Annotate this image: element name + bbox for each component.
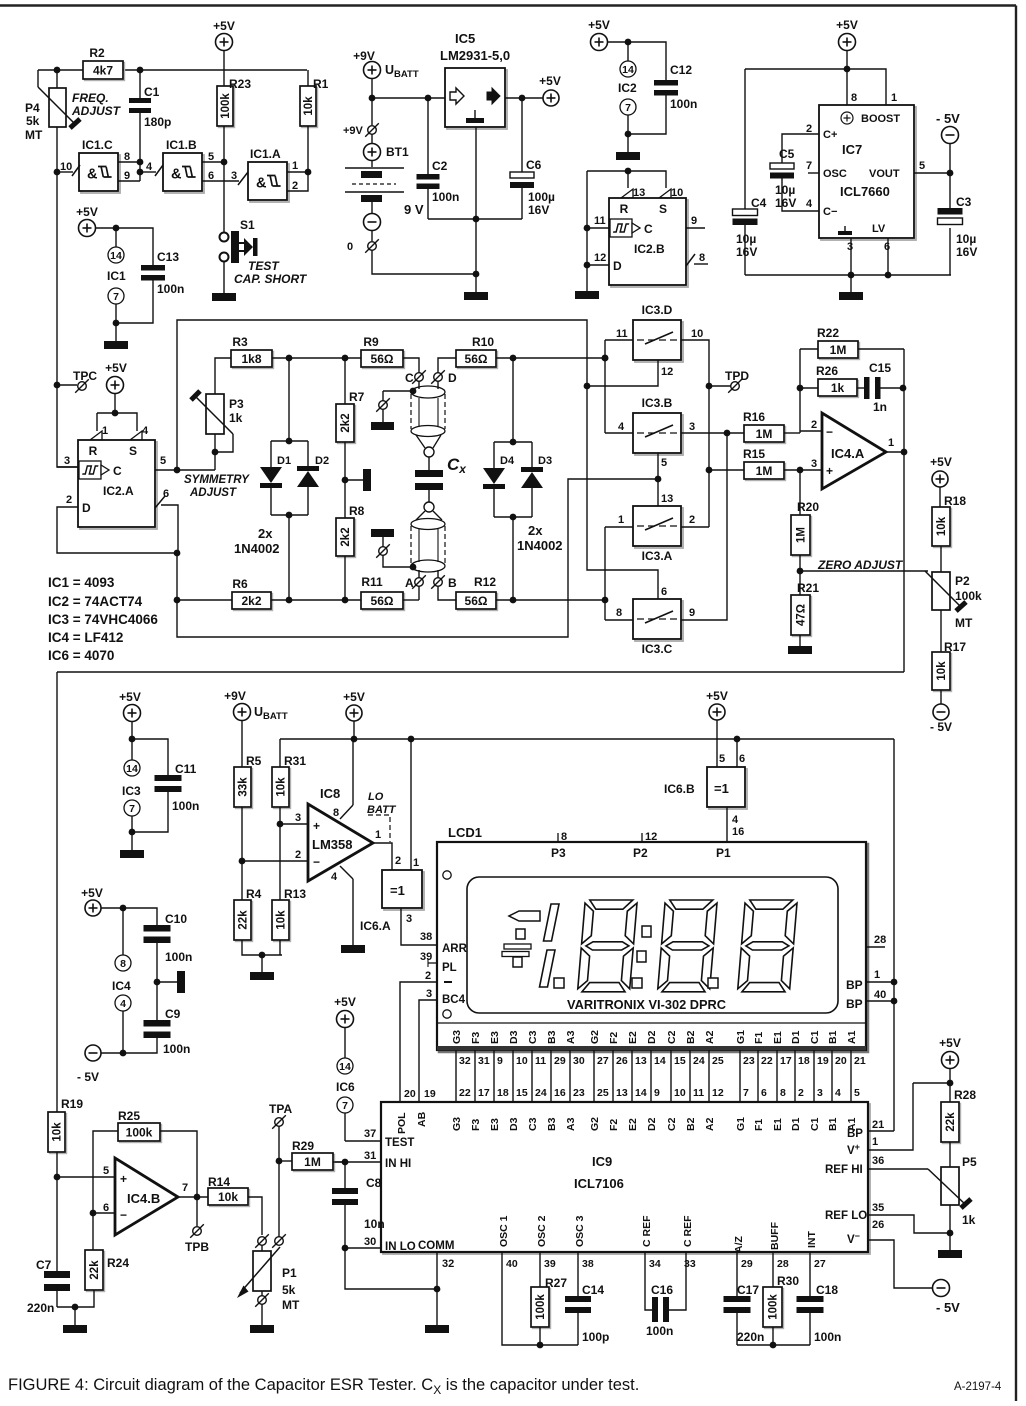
clip upper inner wires xyxy=(419,398,438,427)
wire R3 left xyxy=(215,358,231,394)
svg-text:3: 3 xyxy=(689,421,695,433)
svg-text:17: 17 xyxy=(780,1055,792,1067)
wire IC4 pwr link xyxy=(101,908,157,927)
svg-text:OSC 2: OSC 2 xyxy=(536,1215,548,1247)
svg-text:C2: C2 xyxy=(666,1030,678,1044)
IC7 lv gnd glyph xyxy=(838,226,852,235)
wire C14 bottom xyxy=(577,1313,579,1345)
svg-text:C8: C8 xyxy=(366,1176,382,1190)
wire C10 to C9 xyxy=(156,938,158,1020)
svg-text:C12: C12 xyxy=(670,63,692,77)
wire IC4.A out xyxy=(886,451,904,453)
svg-text:R8: R8 xyxy=(349,504,365,518)
terminal +9V xyxy=(365,123,379,137)
svg-text:R10: R10 xyxy=(472,335,494,349)
pin 8 slash IC8 xyxy=(340,805,353,819)
svg-text:E1: E1 xyxy=(772,1118,784,1131)
battery BT1 plus terminal xyxy=(364,144,381,161)
svg-text:IC3: IC3 xyxy=(122,784,141,798)
svg-text:G3: G3 xyxy=(451,1030,463,1044)
wire D4D3 bottom stem xyxy=(512,517,514,600)
svg-text:LM358: LM358 xyxy=(312,837,352,852)
diode D1 xyxy=(260,467,282,488)
node out IC4.B xyxy=(194,1194,201,1201)
digit 8 first xyxy=(578,900,637,992)
wire IC1 gnd stub xyxy=(115,323,117,341)
terminal TPC xyxy=(75,379,89,393)
resistor R27 xyxy=(531,1287,551,1329)
resistor R25 xyxy=(118,1123,162,1143)
svg-text:14: 14 xyxy=(339,1061,351,1073)
node gnd divider xyxy=(259,952,266,959)
colon upper xyxy=(642,926,651,937)
wire IC3.D pin12 xyxy=(587,360,658,386)
svg-text:&: & xyxy=(87,167,98,183)
wire C6 top xyxy=(521,98,523,172)
node IC1 power junction xyxy=(113,225,120,232)
svg-text:30: 30 xyxy=(364,1236,376,1248)
wire INT to C18 xyxy=(809,1252,811,1297)
node pin8/C1 xyxy=(137,159,144,166)
wire C9 bottom xyxy=(123,1033,157,1053)
svg-text:G2: G2 xyxy=(589,1030,601,1044)
svg-text:C+: C+ xyxy=(823,129,837,141)
svg-text:IC3 = 74VHC4066: IC3 = 74VHC4066 xyxy=(48,612,158,627)
clock glyph IC2.B xyxy=(610,219,640,237)
wire -5V to VOUT xyxy=(949,144,951,174)
wire R15 out xyxy=(784,469,822,471)
svg-text:R14: R14 xyxy=(208,1175,230,1189)
svg-text:IC1 = 4093: IC1 = 4093 xyxy=(48,575,115,590)
clip lower inner wires xyxy=(419,528,438,562)
wire V- pin xyxy=(868,1240,932,1288)
capacitor C1 xyxy=(129,98,151,113)
terminal 0 xyxy=(365,239,379,253)
wire R24 bottom xyxy=(57,1290,94,1307)
wire R28 to P5 xyxy=(949,1142,951,1167)
svg-text:47Ω: 47Ω xyxy=(796,604,808,626)
decimal point 3 xyxy=(708,978,718,988)
svg-text:7: 7 xyxy=(806,160,812,172)
wire signal bus to IC4.B xyxy=(57,671,904,673)
capacitor C2 xyxy=(417,174,440,189)
flip-flop IC2.B xyxy=(609,198,688,287)
svg-text:11: 11 xyxy=(535,1055,546,1067)
wire P3 bottom xyxy=(214,434,216,470)
wire LCD pin2 to POL xyxy=(400,982,437,1102)
svg-text:R25: R25 xyxy=(118,1109,140,1123)
wire segment C3 LCD to IC9 xyxy=(531,1050,533,1102)
supply -5V R17 xyxy=(933,704,949,720)
wire TEST xyxy=(345,1140,381,1142)
node osc rc xyxy=(537,1342,544,1349)
svg-text:100n: 100n xyxy=(814,1330,841,1344)
svg-text:26: 26 xyxy=(872,1219,884,1231)
svg-text:R31: R31 xyxy=(284,754,306,768)
ground P1 xyxy=(250,1325,274,1333)
svg-text:ICL7660: ICL7660 xyxy=(840,184,890,199)
capacitor C5 xyxy=(770,163,794,179)
gate IC6.B xyxy=(707,767,747,809)
wire IC3.D pin10 xyxy=(681,340,709,527)
wire IC6.A pin1 drop xyxy=(410,739,412,870)
svg-text:R: R xyxy=(89,444,98,458)
capacitor C18 xyxy=(797,1296,824,1313)
node D1D2 bottom xyxy=(286,512,293,519)
digit 8 third xyxy=(738,900,797,992)
regulator IC5 xyxy=(445,68,507,129)
svg-text:IN HI: IN HI xyxy=(385,1158,411,1170)
pin 39 tick xyxy=(428,959,437,967)
diode D2 xyxy=(297,466,319,487)
svg-text:IC3.C: IC3.C xyxy=(642,642,673,656)
svg-text:- 5V: - 5V xyxy=(930,720,952,734)
mount hole bottom xyxy=(443,1010,451,1018)
svg-text:3: 3 xyxy=(847,241,853,253)
ground IC2 block xyxy=(616,152,640,160)
dashed LO BATT pointer xyxy=(368,815,390,842)
svg-text:2k2: 2k2 xyxy=(340,527,352,546)
resistor R16 xyxy=(743,410,786,444)
svg-text:C13: C13 xyxy=(157,250,179,264)
svg-text:100n: 100n xyxy=(172,799,199,813)
wire R26 left xyxy=(800,387,818,389)
node BP1 xyxy=(891,979,898,986)
svg-text:IC1.C: IC1.C xyxy=(82,138,113,152)
wire P4 bottom / main clock line xyxy=(57,127,78,467)
svg-text:REF HI: REF HI xyxy=(825,1164,863,1176)
svg-text:IC4.B: IC4.B xyxy=(127,1191,160,1206)
svg-text:C2: C2 xyxy=(432,159,448,173)
node IC3 pwr junction xyxy=(129,736,136,743)
node pin4 tap xyxy=(137,169,144,176)
node IC7 top junction xyxy=(844,66,851,73)
wire pin3 down xyxy=(850,238,852,275)
svg-text:19: 19 xyxy=(424,1088,436,1100)
svg-text:8: 8 xyxy=(120,958,126,970)
svg-text:21: 21 xyxy=(854,1055,866,1067)
wire IC2.A set rail xyxy=(97,413,137,431)
wire C7 bottom xyxy=(56,1285,58,1307)
svg-text:1k: 1k xyxy=(962,1213,976,1227)
node drive to pin12 xyxy=(584,383,591,390)
wire guard upper to bar xyxy=(382,409,384,422)
svg-text:R15: R15 xyxy=(743,447,765,461)
svg-text:A3: A3 xyxy=(565,1117,577,1131)
svg-text:1: 1 xyxy=(618,514,624,526)
svg-text:5: 5 xyxy=(208,151,214,163)
resistor R4 xyxy=(234,900,253,942)
svg-text:VOUT: VOUT xyxy=(869,168,900,180)
svg-text:1M: 1M xyxy=(756,464,773,478)
node R8 bottom xyxy=(342,597,349,604)
resistor R29 xyxy=(292,1153,335,1172)
wire C12 bottom xyxy=(628,95,666,134)
svg-text:220n: 220n xyxy=(737,1330,764,1344)
svg-text:7: 7 xyxy=(113,291,119,303)
svg-text:D4: D4 xyxy=(500,455,515,467)
resistor R20 xyxy=(791,500,819,557)
wire P3 wiper xyxy=(215,434,233,452)
wire IC2 pin14 link xyxy=(627,42,629,61)
svg-text:A-2197-4: A-2197-4 xyxy=(954,1381,1002,1393)
svg-text:2: 2 xyxy=(292,180,298,192)
svg-text:38: 38 xyxy=(582,1258,594,1270)
svg-text:+9V: +9V xyxy=(343,125,364,137)
svg-text:22k: 22k xyxy=(89,1260,101,1280)
wire D1D2 bottom bracket xyxy=(271,514,308,516)
svg-text:IC2: IC2 xyxy=(618,81,637,95)
terminal P1 top xyxy=(255,1234,269,1248)
wire C2 top xyxy=(427,98,429,174)
wire R29 right xyxy=(333,1161,345,1163)
svg-text:IC3.B: IC3.B xyxy=(642,396,673,410)
svg-text:2: 2 xyxy=(395,855,401,867)
svg-text:E1: E1 xyxy=(772,1031,784,1044)
svg-text:22: 22 xyxy=(761,1055,773,1067)
wire IC8 output xyxy=(373,843,392,870)
svg-text:F2: F2 xyxy=(608,1032,620,1044)
clip lower jaw circle xyxy=(424,502,434,512)
capacitor C12 xyxy=(654,80,678,96)
wire segment F1 LCD to IC9 xyxy=(757,1050,759,1102)
clip upper jaw circle xyxy=(424,447,434,457)
wire D1D2 top bracket xyxy=(271,440,308,442)
gate IC1.A xyxy=(248,162,289,202)
wire IC4 pin8 link xyxy=(122,908,124,955)
wire IN LO xyxy=(345,1247,381,1249)
svg-text:A2: A2 xyxy=(704,1030,716,1044)
wire D2 bottom xyxy=(307,487,309,515)
display window xyxy=(467,877,838,1013)
svg-text:11: 11 xyxy=(594,215,606,227)
svg-text:16: 16 xyxy=(554,1087,566,1099)
decimal point 2 xyxy=(632,978,642,988)
node R16 input xyxy=(724,430,731,437)
gate IC1.C xyxy=(79,153,120,193)
svg-text:P3: P3 xyxy=(551,846,566,860)
wire pin2 IC8 xyxy=(242,860,308,862)
wire P4 top terminal xyxy=(56,70,58,88)
svg-text:R28: R28 xyxy=(954,1088,976,1102)
svg-text:B1: B1 xyxy=(827,1117,839,1131)
wire C8 bottom xyxy=(344,1205,346,1248)
svg-text:17: 17 xyxy=(478,1087,490,1099)
svg-text:1: 1 xyxy=(872,1136,878,1148)
frame right border xyxy=(1015,6,1017,1402)
svg-text:- 5V: - 5V xyxy=(77,1070,99,1084)
svg-text:TEST: TEST xyxy=(385,1137,414,1149)
svg-text:28: 28 xyxy=(777,1258,789,1270)
resistor R23 xyxy=(217,77,251,128)
gate IC1.C glyph xyxy=(87,167,112,183)
svg-text:D: D xyxy=(82,501,91,515)
node VOUT junction xyxy=(947,170,954,177)
svg-text:INT: INT xyxy=(806,1231,818,1249)
svg-text:5k: 5k xyxy=(26,114,40,128)
resistor R12 xyxy=(456,575,498,611)
svg-text:C REF: C REF xyxy=(641,1215,653,1247)
switch S1 contact top xyxy=(220,233,229,242)
clip upper ellipse bottom xyxy=(411,426,445,437)
op-amp IC8 xyxy=(308,804,373,881)
svg-text:3: 3 xyxy=(406,913,412,925)
svg-text:+5V: +5V xyxy=(76,205,98,219)
capacitor C4 xyxy=(733,209,758,225)
wire R4 bottom xyxy=(242,940,282,955)
capacitor C10 xyxy=(144,925,171,943)
annunciator bars xyxy=(502,944,531,957)
ground S1 xyxy=(212,293,236,301)
svg-text:+5V: +5V xyxy=(81,886,103,900)
wire R5 to R4 xyxy=(241,807,243,900)
wire D into clip xyxy=(437,381,439,389)
wire C18 bottom xyxy=(809,1313,811,1345)
wire gnd bus IC5 xyxy=(428,218,522,220)
node R10 tap xyxy=(510,355,517,362)
node ctl AB xyxy=(655,476,662,483)
preset triangle pin10 xyxy=(659,189,671,198)
wire IC8 pin8 to +5V xyxy=(352,739,354,805)
op-amp IC4.B xyxy=(115,1158,178,1235)
node P3 wiper tie xyxy=(212,449,219,456)
wire IC3.A pin2 xyxy=(681,526,709,528)
wire R18 to P2 xyxy=(940,546,942,572)
wire R19 bottom xyxy=(56,1152,58,1273)
svg-text:LO: LO xyxy=(368,791,384,803)
wire R24 top xyxy=(92,1213,94,1250)
svg-text:+5V: +5V xyxy=(334,995,356,1009)
svg-text:AB: AB xyxy=(416,1111,428,1127)
svg-text:5: 5 xyxy=(103,1165,109,1177)
flip-flop IC2.A xyxy=(78,440,157,529)
supply +9V UBATT xyxy=(364,62,381,79)
pin 7 bubble IC1 xyxy=(108,288,124,304)
svg-text:IC1.B: IC1.B xyxy=(166,138,197,152)
svg-text:8: 8 xyxy=(699,252,705,264)
resistor R10 xyxy=(456,335,498,369)
wire B down xyxy=(438,586,456,600)
svg-text:ADJUST: ADJUST xyxy=(71,104,122,118)
svg-text:ADJUST: ADJUST xyxy=(189,487,237,499)
svg-text:R29: R29 xyxy=(292,1139,314,1153)
wire C+ to C5 xyxy=(782,134,819,163)
wire R20 bottom xyxy=(799,555,801,595)
guard bar mid xyxy=(363,469,371,491)
guard bar IC4 xyxy=(177,971,185,993)
svg-text:+: + xyxy=(120,1172,127,1186)
svg-text:PL: PL xyxy=(442,962,457,974)
supply +9V UBATT2 xyxy=(234,704,251,721)
wire segment E2 LCD to IC9 xyxy=(631,1050,633,1102)
node R3/D1D2 xyxy=(286,355,293,362)
svg-text:8: 8 xyxy=(124,151,130,163)
wire segment G2 LCD to IC9 xyxy=(593,1050,595,1102)
capacitor C9 xyxy=(144,1020,171,1038)
svg-text:22k: 22k xyxy=(945,1112,957,1132)
svg-text:40: 40 xyxy=(506,1258,518,1270)
svg-text:56Ω: 56Ω xyxy=(371,352,394,366)
resistor R24 xyxy=(85,1250,129,1292)
wire R22 left xyxy=(800,348,818,350)
wire UBATT to IC5 xyxy=(372,97,445,99)
svg-text:19: 19 xyxy=(817,1055,829,1067)
switch S1 contact bottom xyxy=(220,253,229,262)
svg-text:R19: R19 xyxy=(61,1097,83,1111)
wire D1 bottom xyxy=(270,488,272,515)
wire R3 right xyxy=(272,357,361,359)
wire A down xyxy=(418,586,420,600)
node C10/C9 mid xyxy=(154,979,161,986)
svg-text:100k: 100k xyxy=(955,589,982,603)
svg-text:ICL7106: ICL7106 xyxy=(574,1176,624,1191)
terminal TPB xyxy=(190,1224,204,1238)
svg-text:−: − xyxy=(120,1208,127,1222)
svg-text:16V: 16V xyxy=(528,203,549,217)
svg-text:IC4: IC4 xyxy=(112,979,131,993)
node R1/IC1.A junction xyxy=(305,169,312,176)
svg-text:3: 3 xyxy=(817,1087,823,1099)
svg-text:IC2.A: IC2.A xyxy=(103,484,134,498)
resistor R11 xyxy=(361,575,405,611)
svg-text:5k: 5k xyxy=(282,1283,296,1297)
svg-text:100k: 100k xyxy=(535,1294,547,1320)
svg-text:F1: F1 xyxy=(753,1032,765,1044)
svg-text:7: 7 xyxy=(743,1087,749,1099)
charge pump IC7 xyxy=(819,105,916,240)
ground IC5 xyxy=(464,292,488,300)
svg-text:IC2 = 74ACT74: IC2 = 74ACT74 xyxy=(48,594,143,609)
potentiometer P5 xyxy=(928,1167,971,1208)
analog switch IC3.D xyxy=(633,320,683,362)
svg-text:0: 0 xyxy=(347,241,353,253)
wire IC4.B out xyxy=(178,1196,208,1198)
svg-text:R13: R13 xyxy=(284,887,306,901)
node clip upper guard xyxy=(410,388,417,395)
wire R14 right xyxy=(248,1197,262,1235)
svg-text:220n: 220n xyxy=(27,1301,54,1315)
node rail pin6 IC6.B xyxy=(734,736,741,743)
wire R31 to R13 xyxy=(279,807,281,900)
wire IC2.B pin8 stub xyxy=(694,263,708,265)
resistor R17 xyxy=(932,652,952,692)
svg-text:IC1.A: IC1.A xyxy=(250,147,281,161)
gate IC1.B xyxy=(163,153,204,193)
decimal point 1 xyxy=(554,978,564,988)
svg-text:10k: 10k xyxy=(303,96,315,116)
wire R25 right xyxy=(160,1131,197,1197)
schmitt slash IC1.A pin3 xyxy=(238,172,248,185)
node fb IC4.B xyxy=(90,1210,97,1217)
node R7 top xyxy=(342,355,349,362)
svg-text:R24: R24 xyxy=(107,1256,129,1270)
wire IC3.A pin1 col xyxy=(604,527,606,620)
clip lower body dashed xyxy=(411,526,445,564)
svg-text:1M: 1M xyxy=(756,427,773,441)
svg-text:P4: P4 xyxy=(25,101,40,115)
svg-text:10µ: 10µ xyxy=(956,232,976,246)
annunciator square1 xyxy=(516,929,525,939)
wire R22 right xyxy=(858,348,904,350)
svg-text:FREQ.: FREQ. xyxy=(72,91,109,105)
wire R27 bottom xyxy=(539,1327,541,1345)
LCD bottom edge band xyxy=(437,1046,866,1051)
svg-text:F3: F3 xyxy=(470,1032,482,1044)
node BP40 xyxy=(891,998,898,1005)
resistor R19 xyxy=(48,1112,67,1154)
pin 14 bubble IC1 xyxy=(108,247,124,263)
node out IC4.A xyxy=(901,449,908,456)
